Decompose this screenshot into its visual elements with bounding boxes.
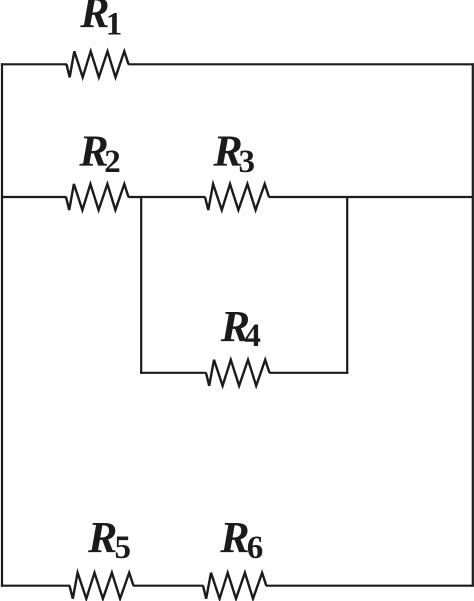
label R5: [87, 513, 131, 566]
wire inner-right vertical (R3 output down to R4 branch): [346, 196, 348, 374]
svg-text:2: 2: [104, 144, 121, 180]
wire middle horizontal left segment: [1, 196, 67, 198]
wire top horizontal left segment: [1, 63, 67, 65]
resistor R3: [205, 184, 269, 210]
resistor R1: [67, 51, 129, 77]
wire bottom horizontal left segment: [1, 585, 70, 587]
svg-text:R: R: [219, 513, 249, 562]
svg-text:3: 3: [239, 144, 256, 180]
svg-text:1: 1: [106, 6, 123, 42]
wire left vertical (node A rail): [1, 63, 3, 587]
svg-text:6: 6: [247, 530, 264, 566]
label R6: [219, 513, 263, 566]
wire R4 branch right segment: [269, 372, 348, 374]
label R4: [220, 302, 261, 354]
svg-text:5: 5: [115, 530, 132, 566]
wire middle horizontal right segment: [269, 196, 474, 198]
label R3: [212, 126, 255, 179]
svg-text:4: 4: [244, 318, 261, 354]
wire bottom horizontal right segment: [266, 585, 474, 587]
wire R4 branch left segment: [140, 372, 206, 374]
wire inner-left vertical (junction of R2/R3 down to R4 branch): [140, 196, 142, 374]
label R2: [78, 126, 120, 180]
resistor R2: [66, 184, 129, 210]
resistor R6: [203, 573, 266, 599]
svg-text:R: R: [87, 513, 117, 562]
wire middle horizontal segment between R2 and R3: [128, 196, 205, 198]
resistor R4: [206, 360, 270, 386]
resistor R5: [70, 573, 134, 599]
label R1: [79, 0, 122, 42]
wire top horizontal right segment: [128, 63, 473, 65]
wire right vertical (node B rail): [472, 63, 474, 587]
wire bottom horizontal segment between R5 and R6: [133, 585, 203, 587]
